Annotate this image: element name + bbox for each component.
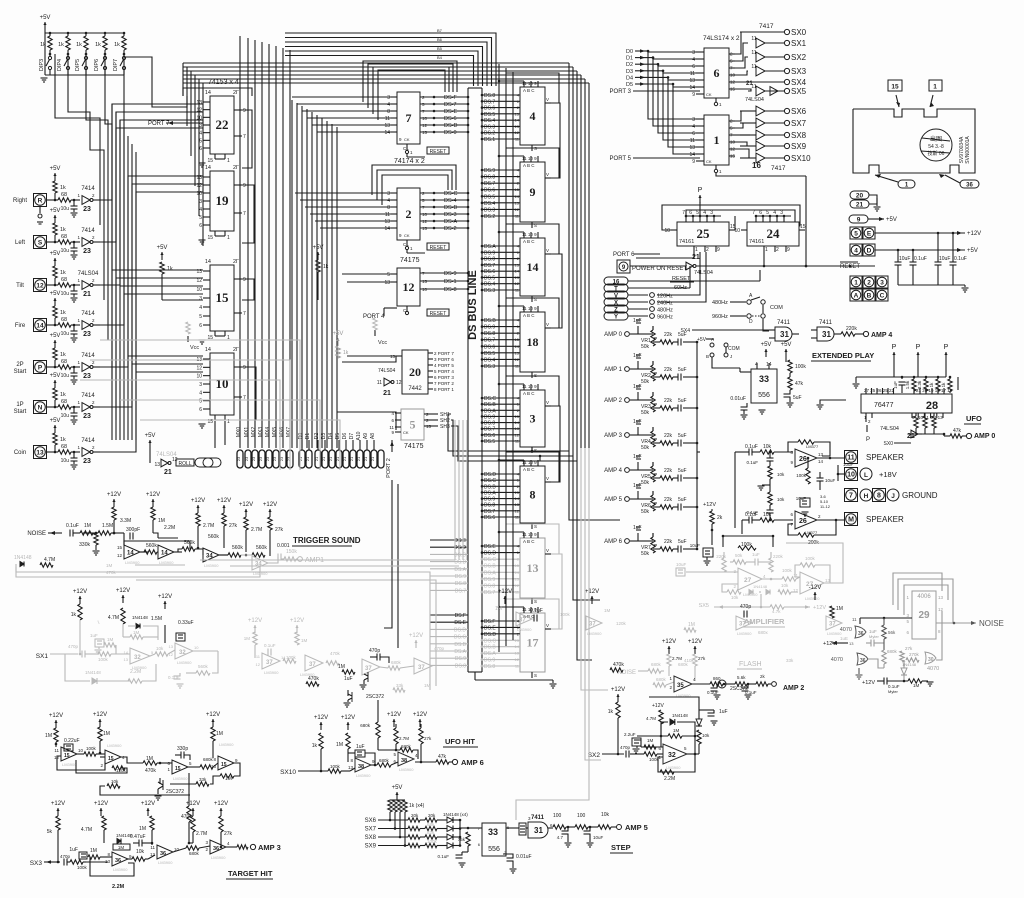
svg-text:DS.3: DS.3	[484, 364, 495, 370]
svg-text:960Hz: 960Hz	[712, 314, 728, 320]
svg-text:DS.9: DS.9	[484, 497, 495, 503]
svg-text:10 11 5 2 13: 10 11 5 2 13	[918, 415, 943, 420]
svg-text:MX2: MX2	[251, 427, 257, 438]
svg-text:100k: 100k	[77, 865, 88, 870]
svg-text:7414: 7414	[81, 311, 95, 317]
svg-text:DS.C: DS.C	[484, 638, 496, 644]
svg-text:+12V: +12V	[116, 588, 130, 594]
svg-text:220k: 220k	[716, 554, 727, 559]
svg-text:13: 13	[196, 269, 202, 275]
svg-text:21: 21	[335, 456, 340, 461]
svg-text:SX7: SX7	[791, 119, 807, 128]
svg-text:74174 x 2: 74174 x 2	[394, 158, 425, 165]
svg-text:1: 1	[227, 235, 230, 241]
svg-text:J: J	[891, 493, 895, 500]
svg-text:12: 12	[730, 80, 736, 85]
svg-text:LM3900: LM3900	[264, 670, 279, 675]
svg-text:DS.9: DS.9	[484, 658, 495, 664]
svg-text:12: 12	[150, 852, 156, 857]
svg-text:13: 13	[515, 200, 520, 205]
svg-text:21: 21	[856, 201, 864, 208]
svg-text:LM3900: LM3900	[125, 560, 140, 565]
svg-text:13: 13	[527, 561, 539, 575]
svg-text:470k: 470k	[613, 662, 624, 668]
svg-text:15: 15	[64, 753, 70, 759]
svg-text:+12V: +12V	[51, 801, 65, 807]
svg-text:480Hz: 480Hz	[657, 308, 673, 314]
svg-text:AMP 4: AMP 4	[871, 332, 892, 339]
svg-text:DS.C: DS.C	[484, 478, 496, 484]
svg-text:27k: 27k	[229, 523, 238, 529]
svg-text:21: 21	[314, 456, 319, 461]
svg-text:74LS04: 74LS04	[378, 368, 395, 374]
svg-text:+12V: +12V	[94, 801, 108, 807]
svg-text:14: 14	[205, 165, 211, 171]
svg-text:+12V: +12V	[862, 680, 875, 686]
svg-text:6: 6	[689, 210, 692, 216]
svg-text:2.7M: 2.7M	[672, 656, 682, 661]
svg-text:22: 22	[216, 117, 229, 132]
svg-text:DS.8: DS.8	[484, 421, 495, 427]
svg-text:47k: 47k	[953, 428, 962, 434]
svg-text:680k: 680k	[203, 757, 214, 762]
svg-text:1k: 1k	[95, 42, 101, 48]
svg-text:10u: 10u	[61, 373, 70, 379]
svg-text:+5V: +5V	[40, 15, 51, 21]
svg-text:+12V: +12V	[290, 618, 304, 624]
svg-text:DS.9: DS.9	[484, 168, 495, 174]
svg-text:10k: 10k	[136, 849, 145, 855]
svg-text:+5V: +5V	[313, 245, 324, 251]
svg-text:22k: 22k	[664, 497, 673, 503]
svg-text:1M: 1M	[301, 638, 308, 643]
svg-text:21: 21	[342, 456, 347, 461]
svg-text:DS.E: DS.E	[454, 620, 466, 626]
svg-text:DS.8: DS.8	[484, 503, 495, 509]
svg-text:SX7: SX7	[365, 827, 377, 833]
svg-text:3: 3	[387, 95, 390, 101]
svg-text:13: 13	[169, 644, 174, 649]
svg-text:1uF: 1uF	[752, 552, 760, 557]
svg-text:1uF: 1uF	[344, 676, 353, 682]
svg-text:DS.6: DS.6	[484, 433, 495, 439]
svg-text:2SC372: 2SC372	[166, 789, 184, 795]
svg-text:A B C: A B C	[523, 539, 535, 544]
svg-text:1M: 1M	[107, 637, 114, 642]
svg-text:P: P	[944, 344, 949, 351]
svg-text:DS.B: DS.B	[484, 402, 496, 408]
svg-text:LM3900: LM3900	[107, 743, 122, 748]
svg-text:DIP6: DIP6	[94, 59, 100, 71]
svg-text:680k: 680k	[887, 649, 898, 654]
svg-text:23: 23	[83, 248, 91, 255]
svg-text:3: 3	[780, 210, 783, 216]
svg-text:1.5M: 1.5M	[151, 616, 162, 622]
svg-text:1M: 1M	[103, 731, 110, 737]
svg-text:10k: 10k	[777, 497, 785, 502]
svg-text:SX3: SX3	[30, 860, 43, 867]
svg-text:TARGET HIT: TARGET HIT	[228, 869, 273, 878]
svg-text:27k: 27k	[698, 656, 706, 661]
svg-text:680k: 680k	[651, 662, 662, 667]
svg-text:LM3900: LM3900	[399, 767, 414, 772]
svg-text:1M: 1M	[90, 848, 97, 854]
svg-text:UFO HIT: UFO HIT	[445, 737, 475, 746]
svg-text:1: 1	[714, 133, 720, 147]
svg-text:15: 15	[515, 638, 520, 643]
svg-text:DS.5: DS.5	[484, 194, 495, 200]
svg-text:10: 10	[216, 376, 229, 391]
svg-text:DS.B: DS.B	[484, 318, 496, 324]
svg-text:50k: 50k	[641, 480, 650, 486]
svg-text:7: 7	[243, 211, 246, 217]
svg-text:23: 23	[244, 456, 249, 461]
svg-text:470k: 470k	[106, 570, 117, 575]
svg-text:5: 5	[199, 138, 202, 144]
svg-text:4070: 4070	[831, 657, 843, 663]
svg-text:1.5M: 1.5M	[102, 523, 113, 529]
svg-text:56k: 56k	[888, 630, 896, 635]
svg-text:LM3900: LM3900	[204, 563, 219, 568]
svg-text:11: 11	[751, 36, 756, 42]
svg-text:10k: 10k	[731, 595, 739, 600]
svg-text:74LS174 x 2: 74LS174 x 2	[703, 35, 740, 42]
svg-text:SX10: SX10	[280, 769, 296, 776]
svg-text:12: 12	[515, 432, 520, 437]
svg-text:D7: D7	[349, 433, 355, 440]
svg-text:120Hz: 120Hz	[657, 294, 673, 300]
svg-text:4006: 4006	[917, 594, 931, 600]
svg-text:17: 17	[527, 636, 539, 650]
svg-text:14: 14	[161, 551, 168, 557]
svg-text:DS-C: DS-C	[444, 191, 457, 197]
svg-text:14: 14	[515, 496, 520, 501]
svg-text:35: 35	[677, 683, 684, 689]
svg-text:10k: 10k	[702, 733, 710, 738]
svg-text:B7: B7	[437, 28, 443, 33]
svg-text:1k: 1k	[60, 227, 66, 233]
svg-text:15: 15	[216, 290, 230, 305]
svg-text:9: 9	[857, 216, 861, 223]
svg-text:DS-A: DS-A	[444, 219, 457, 225]
svg-text:SX8: SX8	[791, 131, 807, 140]
svg-text:DS.4: DS.4	[484, 357, 495, 363]
svg-text:1M: 1M	[244, 636, 251, 641]
svg-text:LM3900: LM3900	[666, 765, 681, 770]
svg-text:1M: 1M	[495, 606, 502, 612]
svg-text:22k: 22k	[664, 539, 673, 545]
svg-text:13: 13	[211, 764, 217, 769]
svg-text:10uF: 10uF	[843, 462, 854, 467]
svg-text:10: 10	[847, 471, 855, 478]
svg-text:DS-6: DS-6	[444, 116, 457, 122]
svg-text:DS.A: DS.A	[484, 244, 496, 250]
svg-text:+12V: +12V	[239, 502, 253, 508]
svg-text:2SC372: 2SC372	[366, 694, 384, 700]
svg-text:12: 12	[515, 207, 520, 212]
svg-text:Coin: Coin	[14, 450, 26, 456]
svg-text:68: 68	[61, 444, 67, 450]
svg-text:DS-3: DS-3	[444, 212, 457, 218]
svg-text:13: 13	[938, 595, 944, 600]
svg-text:1M: 1M	[84, 523, 91, 529]
svg-text:DS.A: DS.A	[484, 570, 496, 576]
svg-text:D5: D5	[626, 82, 633, 88]
svg-text:SPEAKER: SPEAKER	[866, 515, 904, 524]
svg-text:9: 9	[243, 277, 246, 283]
svg-text:4: 4	[854, 247, 858, 254]
svg-text:22k: 22k	[664, 367, 673, 373]
svg-text:DS-9: DS-9	[444, 271, 457, 277]
svg-text:15: 15	[207, 158, 213, 164]
svg-text:5uF: 5uF	[678, 433, 687, 439]
svg-text:LM3900: LM3900	[737, 631, 752, 636]
svg-text:36: 36	[213, 846, 219, 852]
svg-text:DS-B: DS-B	[444, 205, 457, 211]
svg-text:MX5: MX5	[272, 427, 278, 438]
svg-text:21: 21	[305, 456, 310, 461]
svg-text:8: 8	[530, 488, 536, 502]
svg-text:+12V: +12V	[823, 641, 836, 647]
svg-text:9: 9	[243, 365, 246, 371]
svg-text:+5V: +5V	[761, 342, 772, 348]
svg-text:27k: 27k	[905, 646, 913, 651]
svg-text:B: B	[706, 354, 709, 359]
svg-text:MX1: MX1	[244, 427, 250, 438]
svg-text:21: 21	[356, 456, 361, 461]
svg-text:13: 13	[384, 123, 390, 129]
svg-text:13: 13	[36, 449, 44, 456]
svg-text:120k: 120k	[616, 621, 627, 626]
svg-text:P: P	[698, 187, 703, 194]
svg-text:50k: 50k	[641, 445, 650, 451]
svg-text:1M: 1M	[216, 731, 223, 737]
svg-text:DS.B: DS.B	[484, 645, 496, 651]
svg-text:100k: 100k	[782, 568, 793, 573]
svg-text:21: 21	[383, 390, 391, 397]
svg-text:3: 3	[199, 382, 202, 388]
svg-text:2.2uF: 2.2uF	[624, 732, 636, 737]
svg-text:1k: 1k	[58, 42, 64, 48]
svg-text:7411: 7411	[819, 320, 833, 326]
svg-text:4.7M: 4.7M	[646, 716, 656, 721]
svg-text:AMP 5: AMP 5	[604, 497, 623, 503]
svg-text:0.1uF: 0.1uF	[914, 256, 927, 262]
svg-text:5: 5	[199, 314, 202, 320]
svg-text:470p: 470p	[60, 854, 71, 859]
svg-text:+12V: +12V	[498, 589, 512, 595]
svg-text:10u: 10u	[61, 458, 70, 464]
svg-text:23: 23	[83, 331, 91, 338]
svg-text:14: 14	[205, 259, 211, 265]
svg-text:B: B	[867, 292, 872, 299]
svg-text:DS.F: DS.F	[455, 613, 466, 619]
svg-text:LM3900: LM3900	[62, 762, 77, 767]
svg-text:DS.7: DS.7	[484, 181, 495, 187]
svg-text:7411: 7411	[777, 320, 791, 326]
svg-text:38: 38	[358, 764, 364, 770]
svg-text:9: 9	[692, 92, 695, 98]
svg-text:34: 34	[255, 562, 262, 568]
svg-text:470k: 470k	[145, 768, 156, 774]
svg-text:DS.D: DS.D	[484, 632, 496, 638]
svg-text:27k: 27k	[275, 527, 284, 533]
svg-text:15: 15	[515, 490, 520, 495]
svg-text:+5V: +5V	[50, 208, 61, 214]
svg-text:2.7M: 2.7M	[251, 527, 262, 533]
svg-text:47k: 47k	[795, 381, 804, 387]
svg-text:480Hz: 480Hz	[712, 300, 728, 306]
svg-text:7414: 7414	[81, 353, 95, 359]
svg-text:SX2: SX2	[588, 752, 601, 759]
svg-text:DS.D: DS.D	[454, 627, 466, 633]
svg-text:6: 6	[692, 64, 695, 70]
svg-text:12: 12	[515, 281, 520, 286]
svg-text:10: 10	[196, 287, 202, 293]
svg-text:50k: 50k	[641, 509, 650, 515]
svg-text:15: 15	[207, 235, 213, 241]
svg-text:27 25 26 25 22: 27 25 26 25 22	[864, 388, 895, 393]
svg-text:PORT 3: PORT 3	[610, 89, 632, 95]
svg-text:ROLL: ROLL	[178, 461, 191, 467]
svg-text:3: 3	[710, 210, 713, 216]
svg-text:10uF: 10uF	[899, 256, 910, 262]
svg-text:15: 15	[730, 87, 736, 92]
svg-text:DS.3: DS.3	[484, 124, 495, 130]
svg-text:1M: 1M	[118, 845, 125, 850]
svg-text:14: 14	[205, 347, 211, 353]
svg-text:POWER ON RESET: POWER ON RESET	[632, 266, 687, 272]
svg-text:8 PORT 1: 8 PORT 1	[434, 387, 454, 392]
svg-text:15: 15	[426, 424, 432, 429]
svg-text:V: V	[546, 248, 549, 253]
svg-text:12: 12	[730, 147, 736, 152]
svg-text:4: 4	[773, 210, 776, 216]
svg-text:+18V: +18V	[879, 470, 897, 479]
svg-text:AMP 1: AMP 1	[604, 367, 623, 373]
svg-text:+5V: +5V	[781, 342, 792, 348]
svg-text:15: 15	[730, 154, 736, 159]
svg-text:74LS04: 74LS04	[880, 426, 899, 432]
svg-text:LM3900: LM3900	[211, 855, 226, 860]
svg-text:LM3900: LM3900	[356, 773, 371, 778]
svg-text:3: 3	[530, 412, 536, 426]
svg-text:23: 23	[272, 456, 277, 461]
svg-text:CK: CK	[403, 430, 409, 435]
svg-text:AMP 3: AMP 3	[258, 843, 281, 852]
svg-text:34: 34	[206, 554, 213, 560]
svg-text:12: 12	[422, 123, 428, 128]
svg-text:DS.B: DS.B	[454, 560, 466, 566]
svg-text:DS.8: DS.8	[455, 581, 466, 587]
svg-text:100k: 100k	[805, 556, 816, 561]
svg-text:3: 3	[199, 296, 202, 302]
svg-text:DIP4: DIP4	[57, 59, 63, 71]
svg-text:68: 68	[61, 277, 67, 283]
svg-text:MX7: MX7	[286, 427, 292, 438]
svg-text:12: 12	[196, 365, 202, 371]
svg-text:SX10: SX10	[791, 154, 811, 163]
svg-text:5uF: 5uF	[793, 395, 802, 401]
svg-text:32: 32	[179, 650, 186, 656]
svg-text:+12V: +12V	[73, 589, 87, 595]
svg-text:1k: 1k	[941, 382, 946, 388]
svg-text:+5V: +5V	[697, 337, 707, 343]
svg-text:4 PORT 5: 4 PORT 5	[434, 363, 454, 368]
svg-text:15: 15	[422, 226, 428, 231]
svg-text:11: 11	[751, 64, 756, 70]
svg-text:AMP 4: AMP 4	[604, 468, 623, 474]
svg-text:1k: 1k	[60, 310, 66, 316]
svg-text:680k: 680k	[360, 723, 371, 728]
svg-text:68: 68	[61, 317, 67, 323]
svg-text:21: 21	[164, 469, 172, 476]
svg-text:S: S	[534, 524, 537, 529]
svg-text:13: 13	[515, 502, 520, 507]
svg-text:DS.C: DS.C	[484, 396, 496, 402]
svg-text:A B C: A B C	[523, 88, 535, 93]
svg-text:7414: 7414	[81, 393, 95, 399]
svg-text:3: 3	[199, 123, 202, 129]
svg-text:31: 31	[822, 330, 831, 339]
svg-text:15: 15	[515, 187, 520, 192]
svg-text:DS.7: DS.7	[484, 99, 495, 105]
svg-text:AMP 0: AMP 0	[974, 433, 995, 440]
svg-text:23: 23	[83, 373, 91, 380]
svg-text:14: 14	[689, 85, 695, 91]
svg-text:DS.7: DS.7	[484, 263, 495, 269]
svg-text:23: 23	[83, 458, 91, 465]
svg-text:+12V: +12V	[688, 639, 702, 645]
svg-text:2Γ: 2Γ	[233, 165, 239, 171]
svg-text:SX9: SX9	[365, 844, 377, 850]
svg-text:D6: D6	[342, 433, 348, 440]
svg-text:CK: CK	[404, 233, 410, 238]
svg-text:6: 6	[199, 146, 202, 152]
svg-text:DS.9: DS.9	[455, 574, 466, 580]
svg-text:1: 1	[227, 158, 230, 164]
svg-text:A: A	[711, 337, 714, 342]
svg-text:DIP3: DIP3	[39, 59, 45, 71]
svg-text:LM3900: LM3900	[173, 776, 188, 781]
svg-text:DS-4: DS-4	[444, 198, 457, 204]
svg-text:Tilt: Tilt	[16, 283, 24, 289]
svg-text:LM3900: LM3900	[219, 742, 234, 747]
svg-text:76477: 76477	[874, 402, 894, 409]
svg-text:19: 19	[216, 193, 230, 208]
svg-text:14: 14	[515, 269, 520, 274]
svg-text:A10: A10	[356, 431, 362, 440]
svg-text:L: L	[864, 472, 868, 479]
svg-text:1k: 1k	[60, 185, 66, 191]
svg-text:A: A	[854, 292, 859, 299]
svg-text:270k: 270k	[909, 652, 920, 657]
svg-text:DS.7: DS.7	[455, 588, 466, 594]
svg-text:21: 21	[321, 456, 326, 461]
svg-text:+12V: +12V	[314, 715, 328, 721]
svg-text:4: 4	[199, 305, 202, 311]
svg-text:7414: 7414	[81, 228, 95, 234]
svg-text:DS.B: DS.B	[454, 642, 466, 648]
svg-text:1: 1	[854, 279, 858, 286]
svg-text:0.01uF: 0.01uF	[516, 854, 532, 860]
svg-text:50k: 50k	[641, 410, 650, 416]
svg-text:10u: 10u	[61, 248, 70, 254]
svg-text:1N4148: 1N4148	[85, 670, 101, 675]
svg-text:1uF: 1uF	[90, 633, 98, 638]
svg-text:0.33uF: 0.33uF	[178, 620, 194, 626]
svg-text:14: 14	[515, 420, 520, 425]
